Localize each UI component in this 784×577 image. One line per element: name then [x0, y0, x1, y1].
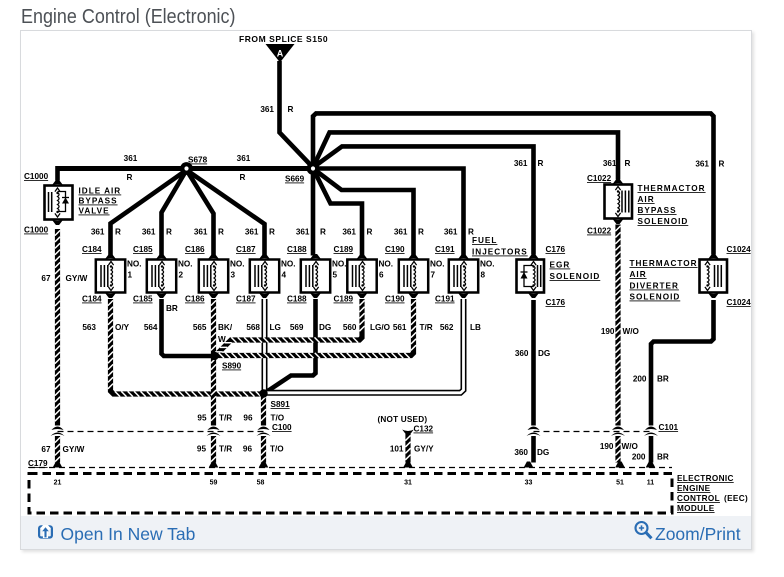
svg-text:561: 561 — [393, 323, 407, 332]
label 564 BR — [144, 304, 178, 332]
svg-text:C186: C186 — [185, 245, 205, 254]
svg-text:C187: C187 — [236, 295, 256, 304]
connector bell above injector 8 — [458, 254, 470, 260]
label 568 LG — [246, 323, 281, 332]
branch S669 to thermactor air bypass solenoid — [313, 132, 618, 179]
label 561 T/R — [393, 323, 433, 332]
svg-text:W: W — [218, 335, 226, 344]
svg-text:C189: C189 — [334, 245, 354, 254]
svg-text:NO.: NO. — [178, 260, 193, 269]
label 563 O/Y — [82, 323, 129, 332]
label NO. 1 — [127, 260, 142, 280]
wiring diagram — [21, 31, 751, 517]
fuel injector U1 (NO. 1) box — [96, 260, 125, 293]
wire 561 T/R injector 7 to S890 — [217, 299, 416, 358]
svg-text:101: 101 — [390, 445, 404, 454]
svg-text:SOLENOID: SOLENOID — [638, 217, 689, 226]
svg-text:R: R — [127, 173, 133, 182]
EEC pin 59 flare — [209, 462, 219, 468]
fuel injector U5 (NO. 5) box — [301, 260, 330, 293]
svg-text:31: 31 — [404, 480, 412, 487]
svg-text:360: 360 — [514, 448, 528, 457]
thermactor air diverter solenoid box — [700, 260, 728, 293]
svg-text:2: 2 — [179, 271, 184, 280]
svg-text:51: 51 — [616, 480, 624, 487]
branch S669 to thermactor air diverter solenoid — [313, 113, 714, 254]
svg-text:361: 361 — [260, 105, 274, 114]
label 361 R at injector 4 — [245, 228, 275, 237]
svg-text:MODULE: MODULE — [677, 504, 715, 513]
wire 565 BK/W injector 3 through S890 to C100 — [211, 299, 216, 426]
label 96 T/O upper — [243, 414, 284, 423]
svg-text:FROM SPLICE S150: FROM SPLICE S150 — [239, 34, 328, 44]
svg-text:C185: C185 — [133, 245, 153, 254]
fuel injector U7 (NO. 7) box — [399, 260, 428, 293]
svg-text:DIVERTER: DIVERTER — [630, 282, 679, 291]
svg-text:NO.: NO. — [480, 260, 495, 269]
svg-text:R: R — [218, 228, 224, 237]
connector C100 pin 96 — [258, 427, 270, 431]
wire S669 to injector 6 — [313, 169, 362, 256]
fuel injector U2 (NO. 2) box — [147, 260, 176, 293]
svg-text:THERMACTOR: THERMACTOR — [638, 184, 706, 193]
svg-text:W/O: W/O — [622, 442, 639, 451]
wire 190 W/O to EEC pin 51 — [615, 436, 620, 463]
splice S891 — [259, 389, 267, 397]
svg-text:361: 361 — [245, 228, 259, 237]
wire S669 to injector 7 — [313, 169, 414, 256]
svg-text:R: R — [269, 228, 275, 237]
EEC pin 21 flare — [53, 462, 63, 468]
drop C1000 to idle air bypass valve — [55, 166, 60, 181]
svg-text:3: 3 — [231, 271, 236, 280]
svg-text:R: R — [418, 228, 424, 237]
svg-text:DG: DG — [537, 448, 549, 457]
svg-text:EGR: EGR — [550, 261, 571, 270]
connector C101 pin 360 — [528, 427, 540, 431]
svg-text:200: 200 — [633, 375, 647, 384]
wire S669 to injector 5 — [311, 169, 316, 256]
svg-text:C191: C191 — [435, 245, 455, 254]
connector bell below injector 7 — [408, 293, 420, 299]
svg-text:560: 560 — [343, 323, 357, 332]
svg-text:S678: S678 — [188, 156, 208, 165]
svg-text:S890: S890 — [222, 362, 242, 371]
svg-text:33: 33 — [525, 480, 533, 487]
svg-text:CONTROL: CONTROL — [677, 494, 720, 503]
open in new tab icon — [38, 525, 54, 539]
svg-text:R: R — [320, 228, 326, 237]
svg-text:361: 361 — [695, 160, 709, 169]
svg-text:C1024: C1024 — [727, 245, 752, 254]
svg-text:190: 190 — [600, 442, 614, 451]
svg-text:360: 360 — [515, 349, 529, 358]
label 361 R at EGR drop — [514, 159, 544, 168]
svg-text:O/Y: O/Y — [115, 323, 130, 332]
svg-text:C1022: C1022 — [587, 174, 612, 183]
svg-text:562: 562 — [440, 323, 454, 332]
svg-text:95: 95 — [197, 445, 207, 454]
wire 96 T/O below C100 to EEC pin 58 — [261, 436, 266, 463]
svg-text:T/R: T/R — [420, 323, 433, 332]
zoom/print icon — [633, 521, 655, 541]
connector bell above injector 6 — [356, 254, 368, 260]
label 361 R at injector 5 — [296, 228, 326, 237]
svg-text:96: 96 — [243, 445, 253, 454]
wire 563 O/Y injector 1 to S891 — [108, 299, 261, 397]
svg-text:C100: C100 — [272, 423, 292, 432]
svg-text:BR: BR — [657, 375, 669, 384]
label 560 LG/O — [343, 323, 391, 332]
connector C101 pin 200 — [645, 427, 657, 431]
svg-text:190: 190 — [601, 327, 615, 336]
svg-text:GY/W: GY/W — [66, 274, 88, 283]
svg-text:C176: C176 — [546, 298, 566, 307]
svg-text:21: 21 — [54, 480, 62, 487]
svg-text:564: 564 — [144, 323, 158, 332]
svg-text:NO.: NO. — [281, 260, 296, 269]
svg-text:C132: C132 — [414, 425, 434, 434]
label THERMACTOR AIR BYPASS SOLENOID — [638, 184, 706, 226]
splice S678 — [180, 162, 193, 175]
svg-text:INJECTORS: INJECTORS — [472, 248, 528, 257]
C100 dashed plane line — [58, 431, 264, 433]
connector bell below injector 1 — [105, 293, 117, 299]
svg-text:VALVE: VALVE — [79, 207, 110, 216]
branch S669 to EGR solenoid — [313, 146, 534, 254]
connector bell above thermactor diverter — [708, 254, 720, 260]
EEC module dashed box — [29, 474, 672, 514]
svg-text:NO.: NO. — [230, 260, 245, 269]
svg-text:(NOT USED): (NOT USED) — [378, 415, 428, 424]
label 361 R at injector 1 — [91, 228, 121, 237]
svg-text:FUEL: FUEL — [472, 236, 497, 245]
svg-text:T/R: T/R — [219, 445, 232, 454]
wire S678 to injector 4 — [187, 170, 265, 256]
connector C179 — [52, 427, 64, 431]
fuel injector U3 (NO. 3) box — [199, 260, 228, 293]
wire 562 LB injector 8 to S891 — [265, 299, 464, 393]
connector bell below injector 4 — [259, 293, 271, 299]
connector C100 pin 95 — [208, 427, 220, 431]
connector bell above EGR solenoid — [528, 254, 540, 260]
svg-text:C1000: C1000 — [24, 226, 49, 235]
C101 dashed plane line — [534, 431, 652, 433]
svg-text:1: 1 — [128, 271, 133, 280]
svg-text:ENGINE: ENGINE — [677, 484, 711, 493]
connector C1022-style bell above idle air bypass valve — [52, 180, 64, 186]
svg-text:67: 67 — [41, 445, 51, 454]
svg-text:8: 8 — [481, 271, 486, 280]
svg-text:58: 58 — [257, 480, 265, 487]
label 562 LB — [440, 323, 481, 332]
svg-text:4: 4 — [282, 271, 287, 280]
EEC pin 58 flare — [259, 462, 269, 468]
wire 67 GY/W below C179 to EEC pin 21 — [55, 436, 60, 463]
wire 95 T/R below C100 to EEC pin 59 — [211, 436, 216, 463]
svg-text:361: 361 — [296, 228, 310, 237]
label 200 BR lower — [632, 453, 669, 462]
svg-text:NO.: NO. — [379, 260, 394, 269]
svg-text:361: 361 — [142, 228, 156, 237]
svg-text:SOLENOID: SOLENOID — [630, 293, 681, 302]
wire 67 GY/W idle air bypass valve to C179 — [55, 229, 60, 426]
connector bell below injector 5 — [310, 293, 322, 299]
svg-text:SOLENOID: SOLENOID — [550, 272, 601, 281]
connector bell below EGR solenoid — [528, 293, 540, 299]
svg-text:C186: C186 — [185, 295, 205, 304]
svg-text:C101: C101 — [659, 423, 679, 432]
svg-text:T/O: T/O — [271, 414, 285, 423]
svg-text:200: 200 — [632, 453, 646, 462]
EEC pin 51 flare — [615, 462, 625, 468]
wire S678 to injector 1 — [111, 170, 187, 256]
connector bell above injector 4 — [259, 254, 271, 260]
svg-text:R: R — [719, 160, 725, 169]
fuel injector U6 (NO. 6) box — [347, 260, 376, 293]
svg-text:C1022: C1022 — [587, 227, 612, 236]
label 361 R at bypass drop — [603, 159, 631, 168]
svg-text:361: 361 — [394, 228, 408, 237]
svg-text:BYPASS: BYPASS — [79, 197, 118, 206]
label 96 T/O lower — [243, 445, 284, 454]
splice S669 — [307, 162, 320, 175]
connector bell above injector 2 — [156, 254, 168, 260]
connector bell below injector 8 — [458, 293, 470, 299]
svg-text:5: 5 — [333, 271, 338, 280]
wire 200 BR thermactor diverter to C101 plane — [651, 300, 714, 426]
idle air bypass valve box — [45, 186, 73, 220]
fuel injector U8 (NO. 8) box — [449, 260, 478, 293]
svg-text:THERMACTOR: THERMACTOR — [630, 259, 698, 268]
fuel injector U4 (NO. 4) box — [250, 260, 279, 293]
svg-text:568: 568 — [246, 323, 260, 332]
connector bell below injector 3 — [208, 293, 220, 299]
svg-text:(EEC): (EEC) — [724, 494, 748, 503]
svg-text:DG: DG — [319, 323, 331, 332]
svg-text:C188: C188 — [287, 245, 307, 254]
label 101 GY/Y — [390, 445, 434, 454]
svg-text:C184: C184 — [82, 245, 102, 254]
wire S678 to injector 2 — [162, 170, 187, 256]
label 95 T/R upper — [197, 414, 232, 423]
svg-text:IDLE AIR: IDLE AIR — [79, 187, 122, 196]
svg-text:AIR: AIR — [638, 195, 655, 204]
connector bell above injector 3 — [208, 254, 220, 260]
label 361 R at injector 6 — [342, 228, 372, 237]
connector bell above thermactor bypass — [612, 179, 624, 185]
svg-text:6: 6 — [379, 271, 384, 280]
label 360 DG lower — [514, 448, 549, 457]
svg-text:R: R — [288, 105, 294, 114]
label NO. 4 — [281, 260, 296, 280]
label FUEL INJECTORS — [472, 236, 528, 257]
label EGR SOLENOID — [550, 261, 601, 282]
svg-text:LG: LG — [270, 323, 281, 332]
svg-text:563: 563 — [82, 323, 96, 332]
label 361 R bus right segment — [237, 154, 251, 182]
splice S890 — [210, 352, 218, 360]
label 95 T/R lower — [197, 445, 232, 454]
svg-text:T/R: T/R — [219, 414, 232, 423]
svg-text:C190: C190 — [385, 245, 405, 254]
svg-text:R: R — [367, 228, 373, 237]
svg-text:C190: C190 — [385, 295, 405, 304]
wire 568 LG injector 4 to S891 — [262, 299, 268, 394]
svg-text:C1024: C1024 — [727, 298, 752, 307]
svg-text:7: 7 — [431, 271, 436, 280]
svg-text:C185: C185 — [133, 295, 153, 304]
wire from splice A (361 R) — [280, 61, 314, 168]
label 190 W/O lower — [600, 442, 639, 451]
svg-text:361: 361 — [603, 159, 617, 168]
svg-text:A: A — [277, 49, 284, 59]
svg-text:361: 361 — [237, 154, 251, 163]
svg-text:R: R — [625, 159, 631, 168]
EEC pin 11 flare — [646, 462, 656, 468]
wire 360 DG to EEC pin 33 — [531, 436, 536, 463]
label 569 DG — [290, 323, 331, 332]
svg-text:569: 569 — [290, 323, 304, 332]
label 361 R at injector 7 — [394, 228, 424, 237]
connector bell below idle air bypass valve — [52, 220, 64, 226]
connector bell below thermactor bypass — [612, 219, 624, 225]
wire 96 T/O S891 to C100 — [261, 395, 266, 426]
label NO. 5 — [332, 260, 347, 280]
svg-text:LG/O: LG/O — [370, 323, 391, 332]
label 361 R on A wire — [260, 105, 293, 114]
connector bell below injector 2 — [156, 293, 168, 299]
svg-text:AIR: AIR — [630, 270, 647, 279]
wire 101 GY/Y C132 stub to EEC pin 31 — [405, 434, 410, 463]
svg-text:C191: C191 — [435, 295, 455, 304]
connector bell above injector 7 — [408, 254, 420, 260]
svg-text:59: 59 — [210, 480, 218, 487]
svg-text:R: R — [538, 159, 544, 168]
svg-text:C179: C179 — [28, 459, 48, 468]
svg-text:NO.: NO. — [430, 260, 445, 269]
svg-text:NO.: NO. — [127, 260, 142, 269]
svg-text:S891: S891 — [271, 400, 291, 409]
svg-text:C176: C176 — [546, 245, 566, 254]
label THERMACTOR AIR DIVERTER SOLENOID — [630, 259, 698, 302]
svg-text:DG: DG — [538, 349, 550, 358]
svg-text:BK/: BK/ — [218, 323, 233, 332]
label NO. 8 — [480, 260, 495, 280]
label 361 R at injector 2 — [142, 228, 172, 237]
svg-text:C184: C184 — [82, 295, 102, 304]
wire 564 BR injector 2 to S890 — [162, 299, 215, 356]
label 67 GY/W lower — [41, 445, 84, 454]
label 361 R at diverter drop — [695, 160, 724, 169]
EGR solenoid box — [517, 260, 545, 293]
svg-text:ELECTRONIC: ELECTRONIC — [677, 474, 734, 483]
label 361 R at injector 3 — [194, 228, 224, 237]
label ELECTRONIC ENGINE CONTROL (EEC) MODULE — [677, 474, 748, 513]
label IDLE AIR BYPASS VALVE — [79, 187, 122, 216]
svg-text:C188: C188 — [287, 295, 307, 304]
svg-text:67: 67 — [41, 274, 51, 283]
svg-text:BR: BR — [657, 453, 669, 462]
label 361 R bus left segment — [124, 154, 138, 182]
svg-text:NO.: NO. — [332, 260, 347, 269]
svg-text:W/O: W/O — [623, 327, 640, 336]
connector C132 bell — [402, 430, 414, 436]
svg-text:T/O: T/O — [270, 445, 284, 454]
svg-text:361: 361 — [342, 228, 356, 237]
branch S669 to fuel injector 8 — [313, 169, 464, 256]
connector bell below injector 6 — [356, 293, 368, 299]
svg-text:BR: BR — [166, 304, 178, 313]
svg-text:R: R — [240, 173, 246, 182]
connector bell above injector 1 — [105, 254, 117, 260]
svg-text:361: 361 — [91, 228, 105, 237]
svg-text:11: 11 — [647, 480, 655, 487]
EEC pin 31 flare — [403, 462, 413, 468]
label 361 R at injector 8 — [444, 228, 474, 237]
svg-text:361: 361 — [124, 154, 138, 163]
wire S678 to injector 3 — [187, 170, 214, 256]
svg-text:565: 565 — [193, 323, 207, 332]
svg-text:361: 361 — [444, 228, 458, 237]
wire 560 LG/O injector 6 to S890 — [216, 299, 365, 355]
main 361 R bus C1000-S678-S669 — [58, 166, 314, 171]
label NO. 2 — [178, 260, 193, 280]
svg-text:GY/Y: GY/Y — [414, 445, 434, 454]
EEC pin 33 flare — [524, 462, 534, 468]
svg-text:95: 95 — [197, 414, 207, 423]
svg-text:361: 361 — [514, 159, 528, 168]
svg-text:C187: C187 — [236, 245, 256, 254]
svg-text:R: R — [166, 228, 172, 237]
svg-text:BYPASS: BYPASS — [638, 206, 677, 215]
EEC module connector face line — [29, 467, 672, 469]
svg-text:LB: LB — [470, 323, 481, 332]
svg-text:C189: C189 — [334, 295, 354, 304]
svg-text:R: R — [115, 228, 121, 237]
wire 190 W/O thermactor bypass to C101 plane — [615, 225, 620, 426]
wire 200 BR to EEC pin 11 — [649, 436, 654, 463]
svg-text:S669: S669 — [285, 175, 305, 184]
connector bell above injector 5 — [310, 254, 322, 260]
label NO. 3 — [230, 260, 245, 280]
svg-text:C1000: C1000 — [24, 172, 49, 181]
svg-text:GY/W: GY/W — [63, 445, 85, 454]
svg-text:96: 96 — [243, 414, 253, 423]
label 200 BR upper — [633, 375, 669, 384]
connector C101 pin 190 — [612, 427, 624, 431]
label 67 GY/W upper — [41, 274, 87, 283]
label 360 DG upper — [515, 349, 550, 358]
wire 569 DG injector 5 to S891 — [266, 299, 316, 393]
thermactor air bypass solenoid box — [605, 185, 633, 219]
connector bell below thermactor diverter — [708, 293, 720, 299]
label NO. 7 — [430, 260, 445, 280]
label NO. 6 — [379, 260, 394, 280]
svg-text:361: 361 — [194, 228, 208, 237]
label 190 W/O upper — [601, 327, 640, 336]
wire 360 DG EGR solenoid to C101 plane — [531, 300, 536, 426]
off-page arrow A from splice S150 — [266, 44, 295, 63]
label 565 BK/W — [193, 323, 233, 344]
